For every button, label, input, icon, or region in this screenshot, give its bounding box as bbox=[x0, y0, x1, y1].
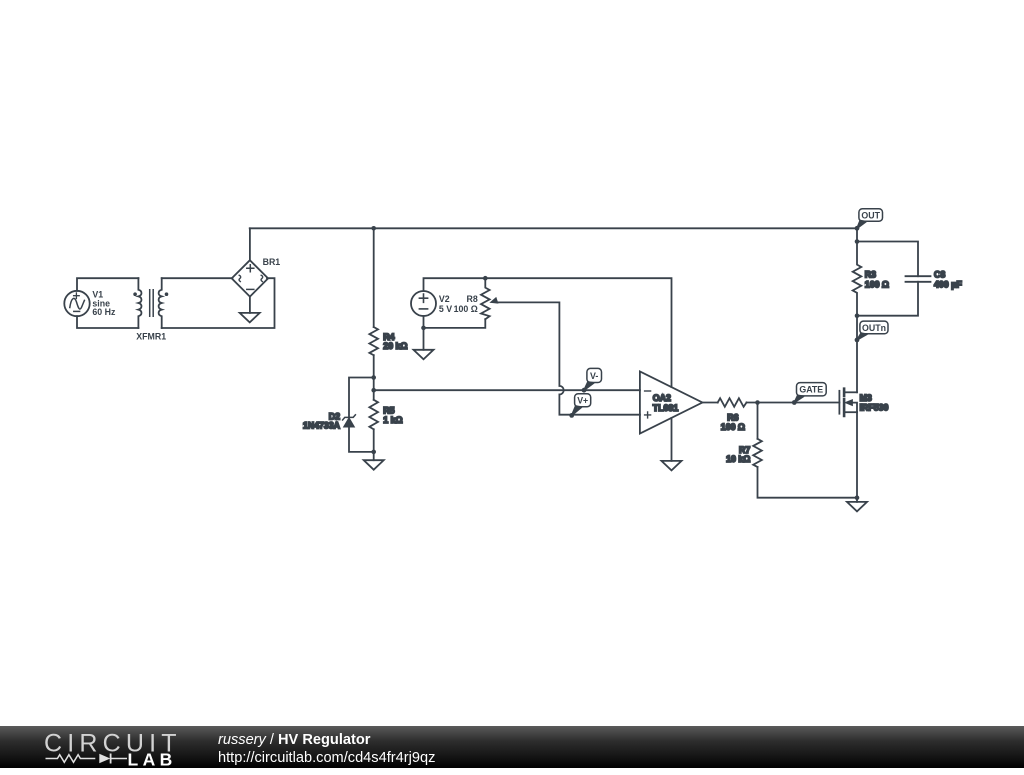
ground BR1 bbox=[240, 313, 260, 323]
wire mosfet source down bbox=[856, 412, 858, 502]
svg-text:10 kΩ: 10 kΩ bbox=[726, 454, 750, 464]
svg-text:R3: R3 bbox=[865, 270, 876, 280]
wire BR1 bottom bbox=[249, 297, 251, 313]
wire V2 bottom to R8 bottom bbox=[424, 319, 486, 328]
svg-text:TL081: TL081 bbox=[653, 403, 679, 413]
node R6/R7 bbox=[755, 400, 760, 405]
ground V2 bbox=[414, 350, 434, 360]
resistor R7 bbox=[726, 439, 762, 467]
potentiometer R8 bbox=[454, 278, 498, 319]
net flag OUT bbox=[855, 209, 883, 231]
transformer XFMR1 bbox=[133, 278, 168, 341]
node R5/D2/ground bbox=[371, 450, 376, 455]
svg-text:100 Ω: 100 Ω bbox=[721, 422, 745, 432]
capacitor C8 bbox=[906, 270, 963, 290]
bridge rectifier BR1 bbox=[232, 257, 281, 297]
svg-text:OUT: OUT bbox=[861, 210, 880, 220]
wire V1 bottom loop bbox=[77, 316, 138, 328]
svg-text:OA2: OA2 bbox=[653, 393, 671, 403]
wire node to R7 bbox=[757, 403, 759, 439]
svg-text:GATE: GATE bbox=[799, 385, 823, 395]
wire rail to R4 bbox=[373, 228, 375, 327]
net flag GATE bbox=[792, 383, 826, 405]
wire to D2 top bbox=[349, 378, 374, 418]
svg-text:BR1: BR1 bbox=[263, 257, 281, 267]
node R3/C8 top bbox=[855, 239, 860, 244]
svg-text:400 μF: 400 μF bbox=[934, 280, 963, 290]
wire R8 top to op-amp supply bbox=[485, 278, 671, 387]
node R5/Vminus wire bbox=[371, 388, 376, 393]
phasing dot primary bbox=[133, 292, 137, 296]
svg-text:XFMR1: XFMR1 bbox=[136, 331, 166, 341]
mosfet M3 bbox=[839, 389, 888, 416]
svg-text:V2: V2 bbox=[439, 294, 450, 304]
svg-text:C8: C8 bbox=[934, 270, 945, 280]
resistor R4 bbox=[369, 327, 407, 355]
node rail/R4 junction bbox=[371, 226, 376, 231]
node R3/C8 bottom bbox=[855, 313, 860, 318]
wire V2 bottom bbox=[423, 316, 425, 350]
svg-text:100 Ω: 100 Ω bbox=[454, 304, 478, 314]
footer bar bbox=[0, 726, 1024, 768]
ground M3 bbox=[847, 502, 867, 512]
wire V1 top loop bbox=[77, 278, 138, 291]
wire R5 bottom to ground node bbox=[373, 429, 375, 460]
svg-text:LAB: LAB bbox=[128, 750, 177, 770]
wire BR1 top to rail bbox=[249, 228, 251, 260]
url text bbox=[218, 750, 435, 766]
svg-text:IRF530: IRF530 bbox=[860, 403, 889, 413]
svg-text:20 kΩ: 20 kΩ bbox=[383, 341, 407, 351]
ground OA2 bbox=[662, 461, 682, 471]
svg-text:V+: V+ bbox=[577, 396, 588, 406]
wire R6 to gate bbox=[747, 402, 840, 404]
CircuitLab logo bbox=[44, 728, 184, 768]
wire C8 bottom bbox=[857, 282, 918, 316]
svg-text:V-: V- bbox=[590, 371, 598, 381]
wire op-amp bottom supply bbox=[671, 418, 673, 461]
node V2 bottom junction bbox=[421, 326, 426, 331]
resistor R3 bbox=[853, 242, 889, 316]
top rail wire bbox=[250, 227, 857, 229]
node V2/R8 top bbox=[483, 276, 488, 281]
net flag OUTn bbox=[855, 321, 888, 342]
node R7/source/ground bbox=[855, 495, 860, 500]
wire secondary bottom to BR1 right bbox=[162, 278, 275, 328]
ground R5 bbox=[364, 460, 384, 470]
node R4/D2/R5 bbox=[371, 375, 376, 380]
wire node to R5 bbox=[373, 378, 375, 400]
wire R3/C8 top horizontal bbox=[857, 242, 918, 277]
phasing dot secondary bbox=[165, 292, 169, 296]
wire R7 bottom to source node bbox=[758, 467, 858, 498]
wire R4 to node bbox=[373, 355, 375, 377]
primary winding bbox=[138, 278, 141, 328]
net flag V+ bbox=[569, 394, 590, 418]
wire wiper continued to plus input bbox=[559, 395, 640, 415]
svg-text:60 Hz: 60 Hz bbox=[92, 307, 116, 317]
wire op-amp output bbox=[702, 402, 717, 404]
title text bbox=[218, 732, 370, 748]
voltage source V1 bbox=[64, 289, 116, 317]
wire down to mosfet drain bbox=[856, 316, 858, 393]
net flag V- bbox=[582, 368, 602, 392]
svg-text:100 Ω: 100 Ω bbox=[865, 280, 889, 290]
wire Vminus horizontal bbox=[374, 389, 640, 391]
wire D2 bottom bbox=[349, 427, 374, 452]
svg-text:OUTn: OUTn bbox=[862, 323, 886, 333]
wire OUT down to R3/C8 top bbox=[856, 228, 858, 241]
svg-text:R8: R8 bbox=[467, 294, 478, 304]
resistor R6 bbox=[718, 398, 747, 432]
wire V2 top bbox=[424, 278, 486, 291]
voltage source V2 bbox=[411, 291, 452, 316]
wire R8 wiper to op-amp plus bbox=[497, 302, 560, 386]
svg-text:1 kΩ: 1 kΩ bbox=[383, 415, 402, 425]
svg-text:5 V: 5 V bbox=[439, 304, 452, 314]
zener diode D2 bbox=[303, 412, 356, 431]
svg-text:1N4733A: 1N4733A bbox=[303, 420, 341, 430]
op-amp OA2 bbox=[640, 371, 703, 433]
wire secondary top to BR1 bbox=[162, 277, 233, 279]
resistor R5 bbox=[369, 400, 402, 430]
secondary winding bbox=[159, 278, 162, 328]
core bbox=[150, 290, 154, 316]
wire hop over Vminus wire bbox=[559, 386, 563, 395]
